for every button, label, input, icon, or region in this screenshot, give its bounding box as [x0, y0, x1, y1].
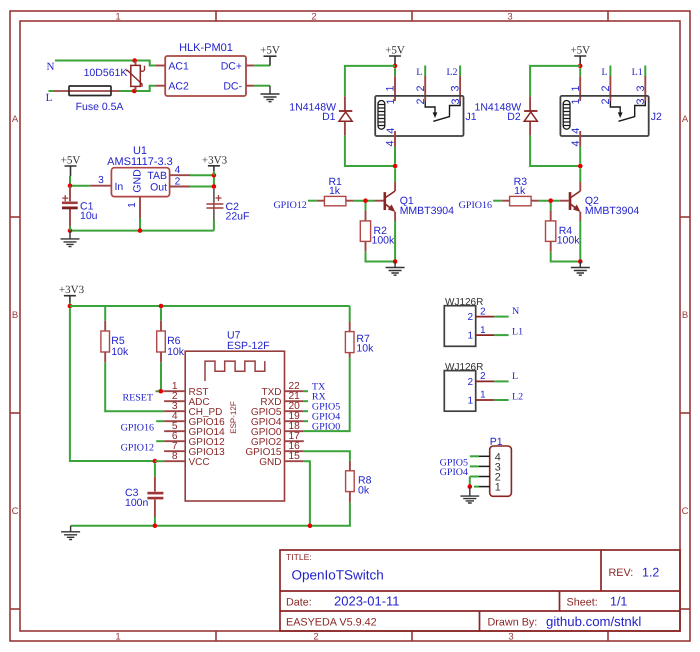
resistor R5 stub top	[104, 321, 106, 331]
svg-text:GND: GND	[259, 457, 281, 468]
diode D2 triangle	[524, 112, 537, 121]
transistor Q1 base bar	[383, 192, 386, 210]
svg-text:GPIO0: GPIO0	[312, 422, 340, 433]
diode D1 triangle	[339, 112, 352, 121]
svg-text:1: 1	[467, 331, 473, 342]
svg-text:2: 2	[415, 85, 427, 91]
svg-text:4: 4	[385, 140, 397, 146]
tick left 2	[10, 412, 20, 414]
capacitor C2 center bar	[213, 202, 215, 211]
pin stubs left	[164, 391, 185, 461]
varistor RV1 designator U	[140, 66, 144, 71]
svg-text:B: B	[12, 310, 18, 321]
svg-text:Date:: Date:	[286, 596, 312, 608]
svg-text:3: 3	[450, 85, 462, 91]
ground relay2	[571, 262, 590, 276]
transistor Q1 emitter arrow	[388, 205, 396, 213]
wire R3 to base	[539, 200, 560, 202]
resistor R3 body	[510, 196, 531, 205]
svg-text:22uF: 22uF	[226, 210, 250, 222]
module HLK-PM01 pin AC1	[156, 65, 165, 67]
antenna symbol	[205, 361, 265, 381]
svg-text:J2: J2	[651, 111, 662, 123]
P1 pin 4 line	[479, 455, 490, 457]
svg-text:GPIO4: GPIO4	[440, 467, 468, 478]
module HLK-PM01 pin DC-	[246, 85, 254, 87]
svg-text:1: 1	[495, 482, 501, 494]
power flag +5V relay1	[385, 45, 405, 65]
relay J1 body	[375, 96, 463, 136]
tick top 3	[607, 11, 609, 21]
wire pin4 to collector node 2	[579, 147, 581, 164]
diode D1 pins	[344, 96, 346, 135]
header P1 body	[490, 446, 512, 496]
diode D2 pins	[529, 96, 531, 135]
resistor R2 body	[360, 221, 370, 242]
relay J2 pin 1	[579, 68, 581, 76]
relay J1 coil	[378, 101, 385, 130]
module HLK-PM01 pin AC2	[156, 85, 165, 87]
resistor R8 body	[346, 471, 355, 492]
svg-text:1: 1	[570, 98, 582, 104]
wire net L1 relay2	[644, 66, 646, 77]
transistor Q2 collector wire	[579, 168, 581, 182]
wire VCC node to pin8	[155, 460, 164, 462]
svg-text:10k: 10k	[167, 346, 185, 358]
relay J1 pin 2 stub	[424, 76, 426, 101]
wire Out to +3V3	[190, 186, 214, 188]
resistor R1 stub left	[317, 200, 325, 202]
svg-text:1k: 1k	[329, 185, 341, 197]
CN2 pin 2 stub	[476, 380, 495, 382]
svg-text:Out: Out	[150, 181, 167, 193]
title block drawnby divider	[479, 611, 481, 631]
svg-text:A: A	[12, 114, 19, 125]
svg-text:D2: D2	[507, 111, 521, 123]
junction gnd rail U1	[138, 228, 143, 233]
svg-text:10u: 10u	[80, 210, 98, 222]
svg-text:L: L	[416, 67, 422, 78]
regulator U1 pin 4 TAB	[170, 174, 190, 176]
fuse F1 body	[69, 86, 111, 96]
svg-text:2: 2	[467, 377, 473, 388]
resistor R7 stub bottom	[349, 353, 351, 358]
relay J2 contact blade	[619, 116, 636, 121]
CN2 wire pin 1	[494, 399, 508, 401]
relay J1 contact common	[425, 101, 435, 113]
wire gnd rail	[70, 230, 214, 232]
svg-text:L: L	[512, 371, 518, 382]
power flag +3V3 reg	[202, 154, 228, 175]
junction Out	[212, 184, 217, 189]
transistor Q2 collector diagonal	[571, 191, 581, 198]
relay J1 pin 3 stub	[459, 76, 461, 101]
svg-text:15: 15	[289, 451, 301, 462]
wire U1 GND down	[139, 218, 141, 231]
capacitor C2 wire bottom	[213, 221, 215, 231]
junction VCC node	[153, 459, 158, 464]
tick bottom 2	[411, 631, 413, 641]
resistor R5 stub bottom	[104, 352, 106, 362]
svg-text:ESP-12F: ESP-12F	[229, 401, 238, 434]
tick right 2	[680, 412, 690, 414]
capacitor C2 plate bottom	[206, 207, 223, 209]
svg-text:1: 1	[480, 325, 485, 336]
relay J2 pin 4 stub	[579, 131, 581, 147]
CN1 pin 2 stub	[476, 316, 495, 318]
wire +3V3 rail	[70, 305, 350, 307]
power flag +3V3 esp	[59, 284, 85, 306]
svg-text:AC1: AC1	[168, 61, 189, 73]
wire TX nub	[304, 390, 308, 392]
relay J2 pin 2 stub	[609, 76, 611, 101]
module HLK-PM01 body	[165, 56, 246, 96]
relay J2 pin 3 stub	[644, 76, 646, 101]
power flag +5V relay2	[570, 45, 590, 65]
wire GPIO5 nub	[304, 410, 308, 412]
resistor R6 body	[157, 331, 166, 352]
resistor R4 stub bottom	[550, 241, 552, 251]
resistor R3 stub right	[531, 200, 539, 202]
svg-text:Sheet:: Sheet:	[567, 596, 598, 608]
junction +3V3 rail	[68, 304, 73, 309]
wire RX nub	[304, 400, 308, 402]
svg-text:In: In	[115, 181, 124, 193]
junction +5V relay2	[578, 64, 583, 69]
svg-text:2: 2	[600, 85, 612, 91]
svg-text:4: 4	[175, 165, 181, 176]
wire rail to R7	[349, 306, 351, 322]
P1 pin 1 line	[479, 486, 490, 488]
diode D1 cathode bar	[339, 110, 352, 112]
resistor R8 stub top	[349, 461, 351, 471]
svg-text:L2: L2	[512, 391, 523, 402]
tick top 1	[215, 11, 217, 21]
wire TAB to +3V3	[190, 174, 214, 176]
svg-text:3: 3	[98, 175, 104, 186]
svg-text:AC2: AC2	[168, 81, 189, 93]
svg-text:10k: 10k	[111, 346, 129, 358]
wire +3V3 down to VCC	[70, 308, 155, 461]
svg-text:2023-01-11: 2023-01-11	[334, 593, 400, 608]
CN2 pin 1 stub	[476, 399, 495, 401]
relay J1 pin 4 stub	[394, 131, 396, 147]
relay J1 contact blade	[433, 116, 450, 121]
transistor Q2 emitter stub	[579, 212, 581, 221]
resistor R8 stub bottom	[349, 492, 351, 503]
resistor R5 body	[101, 331, 110, 352]
svg-text:Fuse 0.5A: Fuse 0.5A	[76, 101, 124, 113]
transistor Q2 collector stub	[579, 182, 581, 191]
junction +5V/C1	[68, 183, 73, 188]
tick right 1	[680, 216, 690, 218]
capacitor C2 plate top	[206, 203, 223, 205]
resistor R2 stub bottom	[365, 241, 367, 251]
junction emitter gnd 2	[578, 259, 583, 264]
junction gnd rail C3	[153, 524, 158, 529]
resistor R4 stub top	[550, 211, 552, 221]
relay J2 coil	[563, 101, 570, 130]
svg-text:4: 4	[570, 128, 582, 134]
svg-text:L: L	[46, 92, 53, 104]
resistor R7 stub top	[349, 322, 351, 332]
regulator U1 pin 3	[90, 185, 111, 187]
relay J1 contact fixed	[450, 101, 461, 117]
capacitor C1 plate bottom	[62, 207, 78, 210]
svg-text:4: 4	[570, 140, 582, 146]
wire GPIO12 esp	[156, 440, 164, 442]
svg-text:2: 2	[175, 176, 181, 187]
module HLK-PM01 pin DC+	[246, 65, 254, 67]
ground at DC-	[261, 86, 280, 102]
wire GPIO16 esp	[156, 420, 164, 422]
wire base node 2 down	[550, 203, 552, 211]
svg-text:2: 2	[467, 312, 473, 323]
svg-text:+5V: +5V	[570, 45, 590, 57]
svg-text:1: 1	[115, 632, 120, 643]
wire R1 to base	[353, 200, 374, 202]
capacitor C2 pins	[213, 189, 215, 221]
svg-text:+3V3: +3V3	[59, 284, 85, 296]
wire net N	[55, 61, 156, 66]
junction RST node	[159, 389, 164, 394]
svg-text:1: 1	[467, 395, 473, 406]
svg-text:1: 1	[570, 85, 582, 91]
svg-text:A: A	[682, 114, 689, 125]
pin stubs right	[285, 391, 304, 461]
transistor Q2 emitter diagonal	[571, 204, 578, 209]
title block row line 2	[280, 610, 680, 612]
wire rail to R6	[160, 308, 162, 321]
tick top 2	[411, 11, 413, 21]
svg-text:OpenIoTSwitch: OpenIoTSwitch	[292, 568, 384, 583]
svg-text:+5V: +5V	[61, 155, 81, 167]
transistor Q1 collector wire	[394, 168, 396, 182]
ground esp rail	[61, 526, 80, 540]
resistor R3 stub left	[502, 200, 510, 202]
svg-text:100k: 100k	[372, 234, 396, 246]
resistor R1 stub right	[346, 200, 354, 202]
wire GND pin to rail	[304, 461, 310, 526]
relay J2 contact fixed	[635, 101, 646, 117]
svg-text:DC-: DC-	[223, 81, 242, 93]
capacitor C3 stub top	[154, 477, 156, 492]
wire net L2 relay1	[459, 66, 461, 77]
regulator U1 body	[111, 168, 169, 197]
resistor R4 body	[546, 221, 556, 242]
junction rail R6	[159, 304, 164, 309]
junction TAB	[212, 173, 217, 178]
svg-text:MMBT3904: MMBT3904	[400, 205, 454, 217]
svg-text:GND: GND	[132, 169, 144, 193]
svg-text:0k: 0k	[358, 484, 370, 496]
wire VCC node to C3	[154, 463, 156, 477]
transistor Q1 emitter diagonal	[385, 204, 392, 209]
wire GPIO4 nub	[304, 420, 308, 422]
junction L/varistor	[132, 89, 137, 94]
wire +3V3 vertical	[213, 175, 215, 186]
wire R2 to emitter gnd	[366, 221, 396, 262]
wire R5 to CH_PD	[105, 362, 164, 411]
svg-text:1k: 1k	[514, 185, 526, 197]
resistor R7 body	[345, 332, 354, 353]
TITLE BLOCK	[280, 550, 680, 631]
svg-text:RESET: RESET	[122, 393, 153, 404]
P1 pin 2 line	[479, 476, 490, 478]
svg-text:GPIO16: GPIO16	[459, 200, 492, 211]
wire R7 to GPIO0	[304, 358, 350, 432]
capacitor C3 plate top	[147, 492, 163, 495]
svg-text:10D561K: 10D561K	[84, 67, 128, 79]
tick bottom 1	[215, 631, 217, 641]
svg-text:N: N	[47, 61, 55, 73]
svg-text:+3V3: +3V3	[202, 154, 228, 166]
regulator U1 pin 2 Out	[170, 186, 190, 188]
svg-text:1: 1	[480, 390, 485, 401]
wire DC+ to +5V	[254, 65, 270, 67]
svg-text:L1: L1	[512, 327, 523, 338]
svg-text:C: C	[682, 506, 689, 517]
P1 pin 3 wire	[470, 465, 479, 467]
ground P1	[460, 487, 479, 503]
relay J2 pin 1 stub	[579, 76, 581, 101]
svg-text:1/1: 1/1	[610, 594, 627, 608]
wire DC- to ground	[254, 85, 270, 87]
svg-text:GPIO12: GPIO12	[273, 200, 306, 211]
svg-text:TAB: TAB	[147, 170, 167, 182]
tick bottom 3	[607, 631, 609, 641]
svg-text:1: 1	[385, 85, 397, 91]
connector CN1 body	[444, 306, 475, 347]
relay J1 pin 1	[394, 68, 396, 76]
junction gnd rail C1	[68, 228, 73, 233]
svg-text:GPIO12: GPIO12	[121, 442, 154, 453]
regulator U1 pin 1 GND	[139, 197, 141, 218]
wire +5V to C1/U1	[70, 176, 90, 186]
svg-text:4: 4	[385, 128, 397, 134]
junction P1 gnd	[468, 484, 473, 489]
junction +5V relay1	[393, 64, 398, 69]
transistor Q2 base bar	[569, 192, 572, 210]
svg-text:HLK-PM01: HLK-PM01	[179, 42, 233, 54]
svg-text:3: 3	[635, 85, 647, 91]
svg-text:2: 2	[480, 371, 485, 382]
svg-text:C: C	[12, 506, 19, 517]
fuse F1 line	[54, 90, 119, 92]
wire esp gnd rail	[71, 525, 310, 527]
varistor RV1 pins	[135, 61, 137, 92]
wire base node down	[365, 203, 367, 211]
svg-text:L1: L1	[632, 67, 643, 78]
wire net L relay2	[609, 66, 611, 77]
diode D2 cathode bar	[524, 110, 537, 112]
P1 pin 2 wire	[470, 477, 479, 487]
svg-text:N: N	[512, 306, 519, 317]
wire R4 to emitter gnd 2	[551, 221, 581, 262]
junction N/varistor	[132, 58, 137, 63]
wire R6 to RST	[156, 362, 165, 391]
svg-text:2: 2	[313, 632, 318, 643]
tick left 3	[10, 608, 20, 610]
title block rev divider	[600, 550, 602, 591]
wire GPIO16 to R3	[493, 200, 502, 202]
wire GPIO15 to R8	[304, 451, 350, 461]
CN1 pin 1 stub	[476, 334, 495, 336]
wire GPIO12 to R1	[308, 200, 317, 202]
svg-text:L: L	[601, 67, 607, 78]
junction collector node 2	[578, 164, 583, 169]
svg-text:TITLE:: TITLE:	[286, 552, 312, 562]
wire net L	[49, 86, 157, 91]
capacitor C2 polarity +	[216, 195, 222, 201]
svg-text:2: 2	[311, 12, 316, 23]
svg-text:D1: D1	[322, 111, 336, 123]
power flag +5V reg	[61, 155, 81, 177]
svg-text:L2: L2	[446, 67, 457, 78]
varistor RV1 body	[131, 65, 141, 86]
transistor Q2 emitter arrow	[573, 205, 581, 213]
svg-text:3: 3	[507, 12, 512, 23]
transistor Q1 base stub	[375, 200, 384, 202]
transistor Q1 emitter stub	[394, 212, 396, 221]
svg-text:AMS1117-3.3: AMS1117-3.3	[107, 156, 173, 168]
capacitor C1 polarity +	[62, 195, 68, 201]
CN1 wire pin 1	[494, 334, 508, 336]
relay J2 contact common	[610, 101, 620, 113]
connector CN2 body	[444, 371, 475, 412]
relay J2 contact arrow	[618, 112, 623, 118]
svg-text:10k: 10k	[356, 342, 374, 354]
wire pin4 to collector node	[394, 147, 396, 164]
svg-text:ESP-12F: ESP-12F	[227, 340, 270, 352]
transistor Q1 collector diagonal	[385, 191, 395, 198]
power flag +5V mains	[260, 45, 280, 66]
capacitor C1 plate top	[62, 202, 78, 205]
svg-text:1: 1	[127, 202, 138, 208]
svg-text:MMBT3904: MMBT3904	[585, 205, 639, 217]
wire +5V to diode branch 2	[530, 66, 580, 96]
capacitor C1 wire bottom	[69, 226, 71, 231]
svg-text:3: 3	[508, 632, 513, 643]
varistor RV1 diagonal	[126, 71, 142, 87]
svg-text:+5V: +5V	[385, 45, 405, 57]
CN1 wire pin 2	[494, 316, 508, 318]
svg-text:Drawn By:: Drawn By:	[488, 616, 538, 628]
relay J1 contact arrow	[433, 112, 438, 118]
svg-text:1.2: 1.2	[642, 566, 659, 580]
svg-text:+5V: +5V	[260, 45, 280, 57]
tick left 1	[10, 216, 20, 218]
svg-text:100n: 100n	[125, 497, 149, 509]
svg-text:8: 8	[172, 451, 178, 462]
resistor R6 stub top	[160, 321, 162, 331]
svg-text:VCC: VCC	[189, 457, 210, 468]
svg-text:REV:: REV:	[609, 567, 634, 579]
svg-text:1: 1	[115, 12, 120, 23]
resistor R1 body	[324, 196, 346, 205]
wire net L relay1	[424, 66, 426, 77]
ground relay1	[386, 262, 405, 276]
transistor Q2 base stub	[560, 200, 569, 202]
title block sheet divider	[559, 591, 561, 611]
module U7 body	[185, 351, 284, 501]
capacitor C3 stub bottom	[154, 500, 156, 517]
svg-text:github.com/stnkl: github.com/stnkl	[546, 614, 641, 629]
P1 pin 1 wire	[474, 486, 479, 488]
junction collector node	[393, 164, 398, 169]
capacitor C3 plate bottom	[147, 497, 163, 500]
wire +5V to diode branch	[345, 66, 395, 96]
